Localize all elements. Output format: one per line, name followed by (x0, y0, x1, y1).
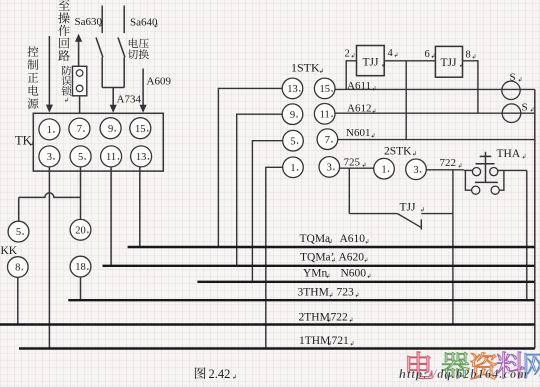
svg-text:11: 11 (320, 109, 330, 120)
button THA actuator (485, 152, 487, 183)
bus YMn N600 (197, 281, 534, 283)
terminal 1STK-1 (283, 157, 304, 178)
svg-text:6: 6 (425, 49, 430, 60)
wire right rail down to 1THM bus (534, 89, 536, 348)
svg-text:N601: N601 (346, 127, 370, 139)
svg-text:↲: ↲ (372, 108, 377, 115)
svg-text:↲: ↲ (319, 68, 324, 75)
relay coil TJJ (pins 2-4) (357, 46, 385, 76)
svg-text:13: 13 (287, 84, 298, 95)
svg-text:A734: A734 (117, 94, 142, 106)
terminal block TK outline (33, 113, 163, 171)
wire TK-3 down to 1THM bus (48, 167, 50, 349)
svg-text:722: 722 (440, 157, 457, 169)
bus 2THM 722 (0, 323, 535, 325)
wire to-operating-circuit arrow (up) from fuse (78, 42, 80, 67)
svg-text:9: 9 (108, 124, 113, 135)
button THA contact a2 (490, 168, 498, 176)
svg-text:THA: THA (497, 148, 521, 160)
bus 3THM 723 (68, 299, 535, 301)
svg-text:N600: N600 (341, 268, 367, 280)
svg-text:5: 5 (78, 152, 83, 163)
svg-text:3: 3 (47, 152, 52, 163)
wire A612: 1STK-11 through lamp S2 to right rail (335, 112, 535, 114)
svg-text:↲: ↲ (365, 239, 370, 246)
svg-text:TJJ: TJJ (363, 57, 380, 69)
svg-text:↲: ↲ (29, 141, 34, 148)
svg-text:TQMa: TQMa (300, 233, 331, 245)
button THA contact a1 (472, 168, 480, 176)
svg-text:↲: ↲ (367, 273, 372, 280)
svg-text:18: 18 (75, 262, 86, 273)
terminal 1STK-11 (314, 104, 335, 125)
wire A609 arrow into TK-15 (142, 69, 144, 106)
svg-text:1THM: 1THM (299, 335, 330, 347)
terminal 1STK-9 (282, 104, 303, 125)
svg-text:↲: ↲ (351, 53, 356, 60)
wire 722: 2STK-3 to button THA (426, 169, 464, 171)
svg-text:↲: ↲ (154, 23, 159, 30)
terminal TK-9 (100, 118, 121, 139)
svg-text:↲: ↲ (232, 374, 237, 381)
terminal KK-5 (8, 221, 29, 242)
svg-text:721: 721 (332, 335, 350, 347)
terminal TK-13 (131, 146, 152, 167)
terminal TK-5 (70, 146, 91, 167)
wire control positive supply arrow into TK-1 (48, 36, 50, 106)
svg-text:↲: ↲ (364, 257, 369, 264)
svg-text:3: 3 (413, 165, 418, 176)
svg-text:S: S (510, 72, 516, 84)
svg-text:TJJ: TJJ (441, 57, 458, 69)
lamp S1 (502, 81, 520, 99)
bus TQMa-prime A620 (103, 265, 535, 267)
wire branch down to terminal 20 (80, 197, 82, 219)
wire junction 722 down to 2THM bus (452, 170, 454, 325)
wire 1STK-13 to A610 bus (218, 88, 282, 247)
label 电压切换 (voltage switching) (129, 38, 138, 48)
bus TQMa A610 (128, 246, 535, 248)
wire switch outputs joined, arrow A734 into TK-9 (102, 87, 124, 89)
bus 1THM 721 (19, 347, 535, 349)
terminal 2STK-3 (406, 159, 427, 180)
svg-text:TQMa’: TQMa’ (300, 252, 335, 264)
svg-text:↲: ↲ (350, 341, 355, 348)
wire TJJ pin-4 to TJJ pin-6 (384, 60, 435, 62)
svg-text:↲: ↲ (472, 54, 477, 61)
svg-text:2: 2 (345, 49, 350, 60)
svg-text:S: S (522, 102, 528, 114)
button THA contact b1 (472, 186, 480, 194)
terminal 20 (70, 219, 91, 240)
svg-text:7: 7 (77, 124, 82, 135)
svg-text:1: 1 (381, 164, 386, 175)
wire 1STK-5 to N600 bus (252, 141, 282, 282)
svg-text:1: 1 (290, 163, 295, 174)
svg-text:↲: ↲ (518, 77, 523, 84)
svg-text:http://dq.b2b164.com: http://dq.b2b164.com (399, 367, 528, 381)
label 至操作回路 防误锁 (to operating circuit / anti-mislock) (58, 0, 69, 10)
svg-text:5: 5 (290, 136, 295, 147)
svg-text:1STK: 1STK (291, 61, 320, 75)
label 控制正电源 (control positive supply) (28, 46, 39, 57)
svg-text:8: 8 (15, 263, 20, 274)
wire A611: 1STK-15 through lamp S1 to right rail (335, 88, 535, 90)
terminal 1STK-5 (283, 130, 304, 151)
wire 725 junction down to TJJ contact (348, 168, 350, 213)
wire 1STK-9 to A620 bus (237, 114, 283, 265)
wire TK-11 down to TQMa-prime A620 bus (110, 167, 112, 266)
svg-text:↲: ↲ (522, 154, 527, 161)
fuse (anti-mislock interlock) (73, 66, 87, 96)
svg-text:8: 8 (466, 50, 471, 61)
svg-text:↲: ↲ (362, 162, 367, 169)
terminal TK-1 (39, 119, 60, 140)
svg-text:2THM: 2THM (299, 312, 330, 324)
svg-text:↲: ↲ (458, 163, 463, 170)
svg-text:A610: A610 (340, 233, 366, 245)
svg-text:2STK: 2STK (384, 146, 412, 158)
svg-text:A609: A609 (147, 76, 172, 88)
wire KK branch horizontal with jump over TK-3 wire (19, 193, 81, 198)
switch Sa640 (123, 6, 125, 34)
svg-text:↲: ↲ (431, 53, 436, 60)
svg-text:KK: KK (1, 245, 18, 257)
svg-text:↲: ↲ (371, 133, 376, 140)
wire terminal 18 down to 3THM bus (80, 277, 82, 300)
svg-text:13: 13 (136, 152, 147, 163)
wire fuse to TK-7 (79, 96, 81, 114)
svg-text:722: 722 (331, 312, 349, 324)
watermark logo (408, 352, 433, 379)
svg-text:A612: A612 (347, 103, 371, 115)
svg-text:↲: ↲ (459, 62, 464, 69)
wire TK-13 down to TQMa A610 bus (139, 167, 141, 247)
terminal 1STK-15 (314, 78, 335, 99)
contact TJJ (normally-open) (349, 213, 397, 215)
svg-text:15: 15 (135, 124, 146, 135)
wire branch down to KK-5 (18, 197, 20, 221)
svg-text:↲: ↲ (412, 151, 417, 158)
svg-text:↲: ↲ (64, 97, 69, 104)
caption 图 2.42 (195, 367, 206, 379)
terminal TK-7 (69, 118, 90, 139)
wire THA left bracket (464, 169, 473, 171)
svg-text:↲: ↲ (355, 292, 360, 299)
wire N601: 1STK-7 to right rail (338, 139, 535, 141)
wire junction pin-4/pin-6 down to N601 (405, 61, 407, 140)
lamp S2 (502, 104, 521, 123)
svg-text:723: 723 (337, 287, 355, 299)
svg-text:11: 11 (106, 152, 116, 163)
svg-text:5: 5 (16, 227, 21, 238)
svg-text:725: 725 (344, 157, 361, 169)
svg-text:↲: ↲ (329, 292, 334, 299)
svg-text:15: 15 (319, 84, 330, 95)
switch Sa630 (101, 6, 103, 34)
terminal 1STK-13 (282, 78, 303, 99)
svg-text:↲: ↲ (372, 86, 377, 93)
svg-text:9: 9 (290, 110, 295, 121)
wire 725: 1STK-3 to 2STK-1 (340, 167, 374, 169)
svg-text:↲: ↲ (394, 52, 399, 59)
svg-text:3: 3 (327, 163, 332, 174)
svg-text:↲: ↲ (328, 239, 333, 246)
wire THA right bracket (499, 170, 504, 190)
terminal 18 (70, 256, 91, 277)
terminal 1STK-7 (317, 129, 338, 150)
svg-text:↲: ↲ (326, 273, 331, 280)
svg-text:A620: A620 (339, 252, 365, 264)
svg-text:A611: A611 (347, 80, 371, 92)
svg-text:YMn: YMn (303, 268, 328, 280)
svg-text:20: 20 (75, 225, 86, 236)
svg-text:↲: ↲ (381, 62, 386, 69)
terminal TK-11 (101, 146, 122, 167)
svg-text:↲: ↲ (349, 317, 354, 324)
button THA contact b2 (491, 186, 499, 194)
svg-text:↲: ↲ (530, 107, 535, 114)
terminal TK-15 (130, 118, 151, 139)
terminal 1STK-3 (319, 157, 340, 178)
svg-text:3THM: 3THM (298, 287, 329, 299)
wire KK-8 down to 2THM bus (17, 277, 19, 324)
svg-text:2.42: 2.42 (209, 367, 231, 381)
terminal KK-8 (7, 257, 28, 278)
relay coil TJJ (pins 6-8) (435, 46, 462, 77)
wire THA down to 3THM bus (526, 170, 528, 300)
wire TJJ pin-8 down to A612 (463, 61, 478, 113)
wire 1STK-1 to 1THM bus (266, 167, 283, 348)
svg-text:↲: ↲ (331, 257, 336, 264)
svg-text:7: 7 (325, 135, 330, 146)
wire TJJ pin-2 down to A611 (346, 61, 356, 90)
terminal 2STK-1 (374, 158, 395, 179)
terminal TK-3 (39, 146, 60, 167)
svg-text:1: 1 (47, 125, 52, 136)
wire TK-5 down to KK branch (80, 167, 82, 198)
svg-text:↲: ↲ (420, 207, 425, 214)
svg-text:TJJ: TJJ (400, 202, 417, 214)
